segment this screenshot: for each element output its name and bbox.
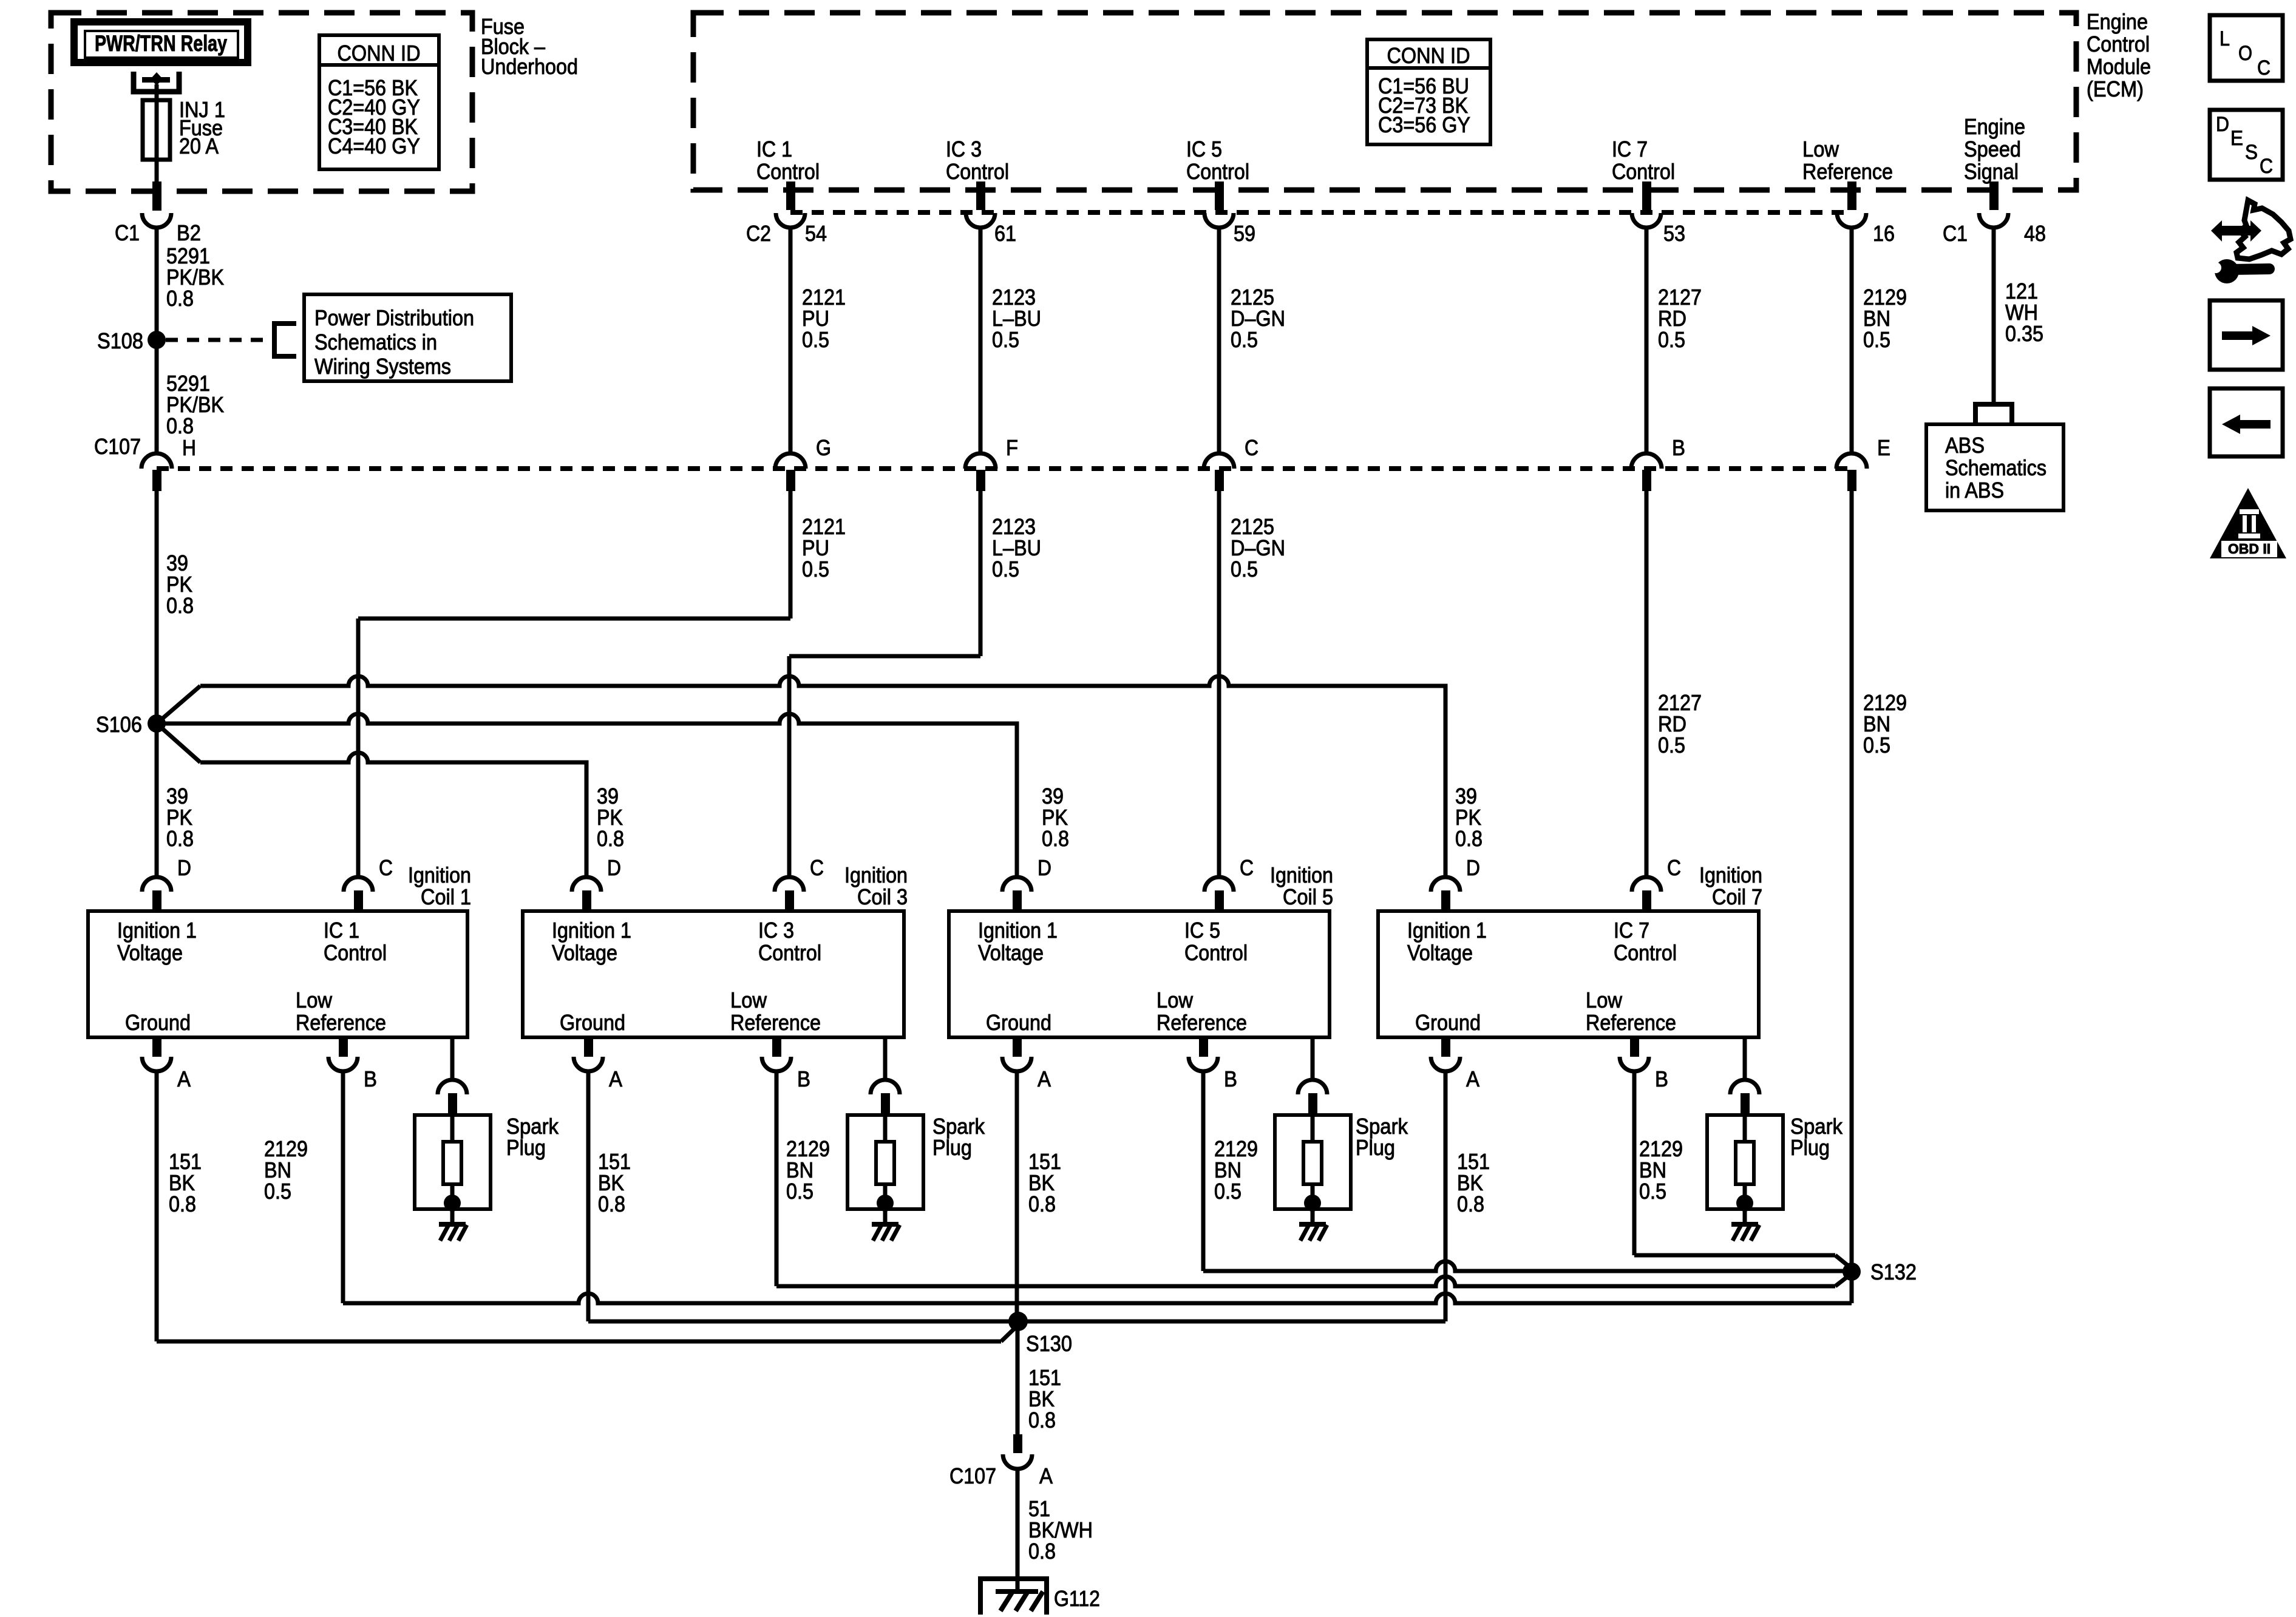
- fuse block underhood dashed box: [51, 13, 472, 191]
- svg-text:C4=40 GY: C4=40 GY: [328, 134, 420, 158]
- wire 2129 BN lower to splice S132: [1850, 491, 1854, 1303]
- svg-text:Speed: Speed: [1964, 137, 2021, 161]
- svg-text:Control: Control: [756, 159, 820, 184]
- svg-text:Engine: Engine: [2087, 9, 2148, 34]
- svg-text:Voltage: Voltage: [978, 940, 1044, 965]
- ABS reference box: [1926, 424, 2063, 510]
- ignition feed rail 3 (to coil 3 pin D): [157, 724, 200, 762]
- spark plug 1 ground: [450, 1209, 455, 1224]
- svg-text:Engine: Engine: [1964, 114, 2025, 139]
- svg-text:0.8: 0.8: [598, 1192, 625, 1216]
- svg-text:Coil 3: Coil 3: [857, 884, 908, 909]
- svg-text:0.8: 0.8: [1028, 1192, 1056, 1216]
- splice S132: [1843, 1263, 1861, 1281]
- icon tools/hand with double arrow: [2211, 220, 2222, 242]
- wire IC3 control vertical to coil 3 pin C: [787, 656, 792, 876]
- svg-text:B: B: [364, 1066, 377, 1091]
- svg-text:E: E: [2230, 127, 2243, 150]
- dashed reference link from S108: [166, 338, 272, 342]
- svg-text:Ignition 1: Ignition 1: [552, 918, 631, 943]
- icon back arrow box: [2210, 388, 2283, 456]
- wire 39 PK from C107-H to S106: [155, 491, 159, 724]
- connector C2 dashed line: [790, 210, 1852, 215]
- spark plug 5 ground: [1311, 1209, 1315, 1224]
- svg-text:D: D: [607, 855, 621, 880]
- svg-text:H: H: [182, 435, 196, 460]
- wire 5291 PK/BK upper: [155, 228, 159, 336]
- svg-text:C3=56 GY: C3=56 GY: [1378, 112, 1470, 137]
- svg-text:D: D: [177, 855, 191, 880]
- svg-text:0.8: 0.8: [169, 1192, 196, 1216]
- svg-text:48: 48: [2024, 221, 2046, 246]
- coil 1 pin B connector: [339, 1036, 348, 1057]
- ignition feed rail 1 (to coil 7 pin D): [157, 686, 200, 724]
- svg-text:20 A: 20 A: [179, 134, 219, 158]
- svg-text:Ignition 1: Ignition 1: [978, 918, 1058, 943]
- svg-text:0.5: 0.5: [1863, 327, 1890, 352]
- svg-text:0.5: 0.5: [1231, 557, 1258, 581]
- svg-text:Control: Control: [946, 159, 1009, 184]
- svg-text:0.8: 0.8: [166, 286, 194, 311]
- svg-text:Ignition 1: Ignition 1: [117, 918, 197, 943]
- svg-text:Control: Control: [1614, 940, 1677, 965]
- icon DESC box: [2210, 110, 2283, 180]
- wire ground coil 5 (151 BK) through S130: [1015, 1071, 1019, 1321]
- wire 2123 L-BU lower + jog to coil3 IC control: [979, 491, 983, 656]
- svg-text:F: F: [1006, 435, 1018, 460]
- wire 2121 PU upper: [789, 228, 793, 453]
- svg-text:Voltage: Voltage: [552, 940, 617, 965]
- wire IC1 control vertical to coil 1 pin C: [356, 619, 361, 876]
- svg-text:0.8: 0.8: [1455, 826, 1483, 851]
- svg-text:Control: Control: [1186, 159, 1249, 184]
- conn id table (ECM): [1367, 39, 1490, 144]
- svg-text:C: C: [379, 855, 393, 880]
- svg-text:S108: S108: [97, 328, 143, 353]
- svg-text:Plug: Plug: [1356, 1135, 1395, 1160]
- connector C107 pin A: [1013, 1434, 1022, 1453]
- coil 5 pin A connector: [1013, 1036, 1022, 1057]
- svg-text:Coil 7: Coil 7: [1712, 884, 1762, 909]
- relay contact: [134, 72, 179, 92]
- svg-text:Power Distribution: Power Distribution: [314, 305, 474, 330]
- fuse INJ 1 20A: [143, 100, 170, 160]
- coil 5 pin C connector: [1204, 877, 1234, 892]
- connector C107 dashed line: [157, 466, 1852, 471]
- svg-text:0.8: 0.8: [1028, 1539, 1056, 1564]
- wire low reference coil 7 (2129 BN) to S132: [1632, 1071, 1637, 1255]
- svg-text:IC 3: IC 3: [946, 137, 982, 161]
- connector C107 pin C: [1204, 453, 1234, 469]
- svg-text:0.5: 0.5: [786, 1179, 813, 1204]
- svg-text:IC 7: IC 7: [1614, 918, 1649, 943]
- svg-text:Plug: Plug: [506, 1135, 546, 1160]
- connector C107 pin G: [775, 453, 806, 469]
- svg-text:Control: Control: [758, 940, 821, 965]
- ignition coil 3 box: [523, 911, 904, 1037]
- svg-text:C: C: [2257, 56, 2271, 80]
- splice S130: [1008, 1312, 1028, 1331]
- coil 3 pin B connector: [772, 1036, 781, 1057]
- svg-text:16: 16: [1873, 221, 1895, 246]
- coil 3 pin D connector: [572, 877, 601, 892]
- svg-text:0.5: 0.5: [264, 1179, 291, 1204]
- wire ground coil 3 (151 BK) to S130: [586, 1071, 591, 1321]
- svg-text:C: C: [810, 855, 824, 880]
- svg-text:0.8: 0.8: [1457, 1192, 1484, 1216]
- ECM engine speed signal pin 48 connector: [1989, 181, 1999, 210]
- wire 2125 D-GN lower to coil5 pin C: [1217, 491, 1221, 876]
- svg-text:Module: Module: [2087, 54, 2151, 79]
- wire 51 BK/WH: [1016, 1469, 1020, 1594]
- svg-text:D: D: [1038, 855, 1051, 880]
- coil 7 pin C connector: [1632, 877, 1661, 892]
- svg-text:Low: Low: [1156, 988, 1194, 1012]
- coil 1 pin D connector: [142, 877, 171, 892]
- connector C107 pin E: [1836, 453, 1867, 469]
- coil 3 pin C connector: [775, 877, 804, 892]
- svg-text:Signal: Signal: [1964, 159, 2019, 184]
- svg-text:Ignition: Ignition: [844, 863, 908, 887]
- svg-text:Control: Control: [324, 940, 387, 965]
- wire IC3 control horizontal: [789, 654, 980, 659]
- svg-text:ABS: ABS: [1945, 433, 1985, 458]
- svg-text:S106: S106: [96, 712, 142, 737]
- svg-text:A: A: [1038, 1066, 1051, 1091]
- svg-text:61: 61: [994, 221, 1016, 246]
- svg-text:B: B: [797, 1066, 810, 1091]
- splice S108: [148, 331, 166, 349]
- connector C107 pin F: [965, 453, 996, 469]
- bracket to ABS reference: [1975, 404, 2012, 422]
- svg-text:0.5: 0.5: [1658, 327, 1685, 352]
- svg-text:54: 54: [805, 221, 827, 246]
- spark plug 3 ground: [883, 1209, 888, 1224]
- svg-text:in ABS: in ABS: [1945, 478, 2004, 503]
- wire 2127 RD upper: [1645, 228, 1649, 453]
- wire fuse to connector C1: [155, 160, 159, 182]
- svg-text:C107: C107: [94, 434, 141, 459]
- wire 2121 PU lower + jog to coil1 IC control: [789, 491, 793, 619]
- svg-text:D: D: [1466, 855, 1480, 880]
- ignition coil 5 box: [949, 911, 1330, 1037]
- coil 7 pin D connector: [1431, 877, 1460, 892]
- svg-text:Underhood: Underhood: [481, 54, 578, 79]
- svg-text:A: A: [1466, 1066, 1479, 1091]
- svg-text:Low: Low: [296, 988, 333, 1012]
- ECM IC 1 control pin 54 connector: [786, 181, 795, 210]
- svg-text:0.5: 0.5: [802, 557, 829, 581]
- svg-text:0.5: 0.5: [1231, 327, 1258, 352]
- svg-text:CONN ID: CONN ID: [1387, 43, 1470, 68]
- svg-text:Ground: Ground: [1415, 1010, 1481, 1035]
- svg-text:A: A: [177, 1066, 191, 1091]
- svg-text:IC 3: IC 3: [758, 918, 794, 943]
- svg-text:0.5: 0.5: [992, 327, 1019, 352]
- conn id table (fuse block): [319, 35, 439, 169]
- svg-text:0.8: 0.8: [1042, 826, 1069, 851]
- wire 2125 D-GN upper: [1217, 228, 1221, 453]
- svg-text:Reference: Reference: [1156, 1010, 1247, 1035]
- svg-text:Plug: Plug: [932, 1135, 972, 1160]
- ignition feed rail 2 (to coil 5 pin D): [157, 714, 1017, 876]
- svg-text:Schematics in: Schematics in: [314, 330, 437, 354]
- ground G112: [980, 1579, 1047, 1615]
- svg-text:59: 59: [1234, 221, 1255, 246]
- svg-text:B: B: [1655, 1066, 1668, 1091]
- svg-text:L: L: [2220, 27, 2230, 50]
- ignition coil 7 box: [1378, 911, 1759, 1037]
- svg-text:C107: C107: [949, 1463, 996, 1488]
- svg-text:Control: Control: [1612, 159, 1675, 184]
- svg-text:0.5: 0.5: [1214, 1179, 1241, 1204]
- svg-text:(ECM): (ECM): [2087, 76, 2144, 101]
- svg-text:Ignition: Ignition: [1270, 863, 1333, 887]
- svg-text:0.5: 0.5: [1863, 733, 1890, 758]
- svg-text:Low: Low: [730, 988, 767, 1012]
- ignition coil 1 box: [88, 911, 467, 1037]
- wire 151 BK from S130: [1016, 1321, 1020, 1435]
- spark plug 7 ground: [1743, 1209, 1747, 1224]
- svg-text:A: A: [609, 1066, 622, 1091]
- svg-text:0.8: 0.8: [166, 413, 194, 438]
- spark plug 5 connector: [1311, 1037, 1315, 1080]
- coil 5 pin D connector: [1002, 877, 1031, 892]
- svg-text:0.8: 0.8: [1028, 1408, 1056, 1432]
- icon forward arrow box: [2210, 300, 2283, 370]
- svg-text:Coil 1: Coil 1: [421, 884, 471, 909]
- svg-text:S: S: [2245, 141, 2258, 164]
- svg-text:B: B: [1224, 1066, 1237, 1091]
- svg-text:IC 1: IC 1: [324, 918, 359, 943]
- ECM IC 3 control pin 61 connector: [976, 181, 985, 210]
- svg-text:D: D: [2216, 113, 2229, 136]
- wire low reference coil 1 (2129 BN) to S132: [341, 1071, 345, 1303]
- wire 2123 L-BU upper: [979, 228, 983, 453]
- fuse block connector C1 pin B2: [152, 181, 161, 211]
- wire 5291 PK/BK lower: [155, 340, 159, 453]
- engine control module dashed box: [693, 13, 2076, 190]
- svg-text:Voltage: Voltage: [117, 940, 183, 965]
- svg-text:CONN ID: CONN ID: [338, 41, 421, 66]
- svg-text:0.5: 0.5: [1639, 1179, 1666, 1204]
- svg-text:Ignition 1: Ignition 1: [1407, 918, 1487, 943]
- svg-text:Reference: Reference: [296, 1010, 386, 1035]
- wire low reference coil 5 (2129 BN) to S132: [1201, 1071, 1206, 1271]
- svg-text:Low: Low: [1802, 137, 1839, 161]
- svg-text:0.5: 0.5: [992, 557, 1019, 581]
- coil 1 pin A connector: [152, 1036, 161, 1057]
- svg-text:Ground: Ground: [125, 1010, 191, 1035]
- svg-text:C: C: [1240, 855, 1254, 880]
- coil 1 pin C connector: [344, 877, 373, 892]
- wire ground coil 1 (151 BK) to S130: [155, 1071, 159, 1341]
- svg-text:G112: G112: [1054, 1586, 1100, 1611]
- svg-text:O: O: [2238, 42, 2252, 65]
- coil 3 pin A connector: [584, 1036, 593, 1057]
- connector C107 pin H: [141, 453, 172, 469]
- svg-text:0.8: 0.8: [166, 826, 194, 851]
- wire 39 PK to coil 1 pin D: [155, 724, 159, 876]
- svg-text:Control: Control: [2087, 32, 2150, 56]
- coil 7 pin B connector: [1630, 1036, 1639, 1057]
- wire IC1 control horizontal: [358, 617, 790, 621]
- wire ground coil 7 (151 BK) to S130: [1444, 1071, 1448, 1321]
- svg-text:C: C: [2260, 155, 2273, 178]
- svg-text:S130: S130: [1026, 1331, 1072, 1356]
- icon OBD II triangle: [2210, 488, 2286, 558]
- spark plug 3 connector: [883, 1037, 888, 1080]
- svg-text:0.5: 0.5: [802, 327, 829, 352]
- svg-text:0.5: 0.5: [1658, 733, 1685, 758]
- icon LOC box: [2210, 15, 2283, 81]
- svg-text:Voltage: Voltage: [1407, 940, 1473, 965]
- svg-text:53: 53: [1663, 221, 1685, 246]
- svg-text:Reference: Reference: [730, 1010, 821, 1035]
- svg-text:0.8: 0.8: [597, 826, 624, 851]
- svg-text:B2: B2: [177, 220, 201, 245]
- svg-text:IC 7: IC 7: [1612, 137, 1648, 161]
- svg-text:0.35: 0.35: [2005, 321, 2043, 346]
- wire 121 WH engine speed signal: [1992, 228, 1996, 402]
- wire 2129 BN upper: [1850, 228, 1854, 453]
- svg-text:PWR/TRN Relay: PWR/TRN Relay: [95, 31, 227, 56]
- wire 2127 RD lower to coil7 pin C: [1645, 491, 1649, 876]
- wire low reference coil 3 (2129 BN) to S132: [775, 1071, 779, 1286]
- svg-text:C1: C1: [1943, 221, 1968, 246]
- svg-text:E: E: [1877, 435, 1890, 460]
- svg-text:IC 5: IC 5: [1184, 918, 1220, 943]
- spark plug 1 connector: [450, 1037, 455, 1080]
- connector C107 pin B: [1631, 453, 1662, 469]
- svg-text:C: C: [1245, 435, 1258, 460]
- svg-text:Plug: Plug: [1790, 1135, 1830, 1160]
- svg-text:Wiring Systems: Wiring Systems: [314, 354, 451, 379]
- splice S106: [148, 714, 166, 733]
- svg-text:C2: C2: [746, 221, 771, 246]
- svg-text:Schematics: Schematics: [1945, 455, 2046, 480]
- coil 5 pin B connector: [1199, 1036, 1208, 1057]
- svg-text:Reference: Reference: [1802, 159, 1893, 184]
- ECM IC 5 control pin 59 connector: [1215, 181, 1224, 210]
- spark plug 7 connector: [1743, 1037, 1747, 1080]
- power distribution reference box: [304, 294, 511, 381]
- svg-text:G: G: [816, 435, 831, 460]
- svg-text:Coil 5: Coil 5: [1283, 884, 1333, 909]
- svg-text:B: B: [1672, 435, 1685, 460]
- ECM low reference pin 16 connector: [1847, 181, 1856, 210]
- spark plug 7: [1707, 1115, 1783, 1209]
- svg-text:0.8: 0.8: [166, 593, 194, 618]
- spark plug 1: [415, 1115, 491, 1209]
- svg-text:OBD II: OBD II: [2228, 541, 2271, 557]
- relay K (PWR/TRN Relay) box: [74, 22, 248, 63]
- svg-text:Low: Low: [1586, 988, 1623, 1012]
- spark plug 3: [847, 1115, 923, 1209]
- svg-text:Ground: Ground: [560, 1010, 625, 1035]
- coil 7 pin A connector: [1441, 1036, 1450, 1057]
- svg-text:Reference: Reference: [1586, 1010, 1676, 1035]
- ECM IC 7 control pin 53 connector: [1642, 181, 1651, 210]
- spark plug 5: [1275, 1115, 1351, 1209]
- svg-text:C1: C1: [115, 220, 140, 245]
- wire relay to fuse: [155, 84, 159, 100]
- svg-text:IC 1: IC 1: [756, 137, 792, 161]
- svg-text:IC 5: IC 5: [1186, 137, 1222, 161]
- svg-text:A: A: [1039, 1463, 1053, 1488]
- bracket to power distribution reference: [274, 324, 296, 356]
- svg-text:Ground: Ground: [986, 1010, 1051, 1035]
- svg-text:Ignition: Ignition: [408, 863, 471, 887]
- svg-text:C: C: [1667, 855, 1681, 880]
- svg-text:S132: S132: [1870, 1259, 1917, 1284]
- svg-text:Ignition: Ignition: [1699, 863, 1762, 887]
- svg-text:Control: Control: [1184, 940, 1248, 965]
